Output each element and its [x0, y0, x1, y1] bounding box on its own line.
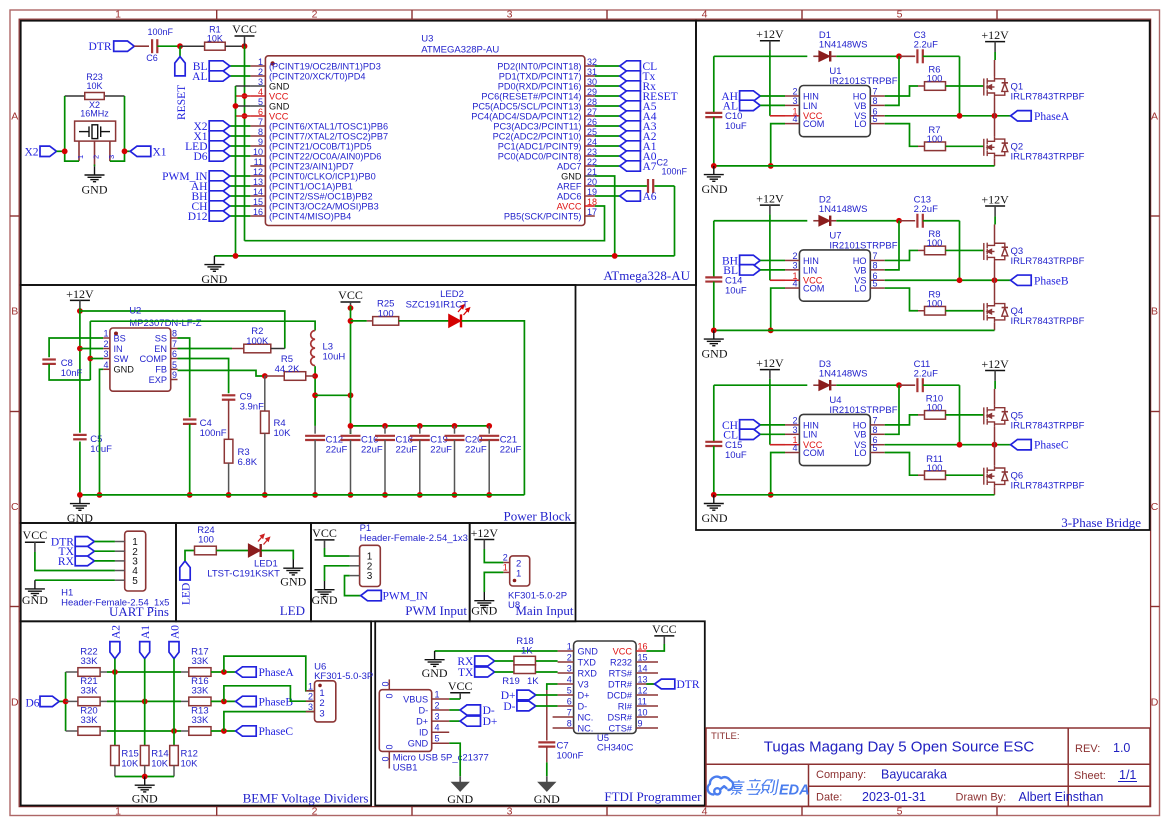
wire U4 LO to R11	[885, 453, 918, 476]
svg-text:+12V: +12V	[981, 357, 1009, 371]
wire U2 pin6 COMP to C9	[178, 359, 229, 394]
svg-text:GND: GND	[22, 593, 48, 607]
svg-text:GND: GND	[114, 365, 135, 375]
svg-text:+12V: +12V	[66, 287, 94, 301]
junction GND pin5 rail	[233, 103, 239, 109]
svg-text:2: 2	[308, 692, 313, 702]
svg-text:Albert Einsthan: Albert Einsthan	[1019, 790, 1104, 804]
junction X2	[62, 148, 68, 154]
U3 pin 13 ((PCINT1/OC1A)PB1)	[250, 185, 265, 187]
terminal U8 KF301-5.0-2P body	[510, 556, 530, 586]
svg-text:100: 100	[198, 535, 214, 546]
U5 pin 15 (R232)	[636, 661, 658, 663]
resistor R25 100 (LED2)	[373, 317, 399, 326]
transistor Q2 IRLR7843TRPBF (low side)	[984, 136, 1008, 158]
U3 pin 24 (PC1(ADC1/PCINT9))	[585, 145, 595, 147]
svg-text:6: 6	[567, 697, 572, 707]
capacitor C14 10uF (driver supply)	[713, 221, 715, 278]
svg-text:2: 2	[503, 553, 508, 563]
capacitor C3 2.2uF	[916, 49, 918, 63]
resistor R23 10K (crystal parallel)	[65, 95, 85, 97]
svg-text:PWM Input: PWM Input	[405, 603, 467, 618]
svg-text:ID: ID	[419, 728, 429, 738]
wire U1 VB to boost node	[885, 56, 899, 105]
wire U4 COM pin to ground rail	[771, 453, 785, 495]
port D6 (U3 left, pin row y=156)	[230, 155, 251, 157]
U6 pin 3	[306, 711, 315, 713]
resistor R5 44.2K	[265, 375, 285, 377]
U2 pin 5 (FB)	[171, 368, 178, 370]
output capacitor bank top rail	[351, 425, 490, 427]
wire U7 LO to R9	[885, 288, 918, 311]
U3 pin 23 (PC0(ADC0/PCINT8))	[585, 155, 595, 157]
svg-text:15: 15	[638, 653, 648, 663]
resistor R9 100 (low gate)	[925, 306, 946, 315]
U1 pin 5 (LO)	[870, 123, 884, 125]
crystal pin 2	[94, 141, 96, 164]
svg-text:R19: R19	[502, 676, 519, 687]
junction BEMF gnd	[142, 774, 148, 780]
U5 pin 11 (RI#)	[636, 705, 658, 707]
junction U2 GND	[97, 492, 103, 498]
svg-text:1N4148WS: 1N4148WS	[819, 40, 868, 51]
ground symbol earth (C7)	[546, 776, 548, 782]
capacitor C12 22uF	[314, 426, 316, 434]
port RESET (U3 right, pin row y=96)	[595, 95, 620, 97]
svg-text:VCC: VCC	[269, 111, 289, 121]
svg-text:100nF: 100nF	[200, 428, 227, 439]
svg-text:A7: A7	[643, 161, 657, 173]
svg-text:100nF: 100nF	[662, 167, 688, 177]
capacitor C10 10uF (driver supply)	[713, 56, 715, 113]
U3 pin 28 (PC5(ADC5/SCL/PCINT13))	[585, 105, 595, 107]
ground symbol GND (bridge block)	[704, 495, 724, 510]
capacitor C5 10uF	[73, 434, 87, 436]
svg-text:RTS#: RTS#	[609, 668, 633, 678]
svg-text:Header-Female-2.54_1x5: Header-Female-2.54_1x5	[61, 598, 169, 609]
ground symbol GND (PWM)	[315, 581, 335, 596]
svg-text:5: 5	[132, 576, 138, 587]
wire P1 pin3 to PWM_IN port	[345, 576, 361, 596]
svg-text:VB: VB	[854, 101, 866, 111]
junction phase	[221, 699, 227, 705]
svg-text:IRLR7843TRPBF: IRLR7843TRPBF	[1011, 152, 1085, 163]
junction SW pin3	[87, 356, 93, 362]
wire R20 to R13	[100, 730, 107, 732]
wire C2 to GND rail	[654, 185, 674, 187]
U2 pin 1 (BS)	[103, 337, 110, 339]
USB1 shield pin 0 (bottom)	[388, 751, 390, 768]
wire U4 VS to phase node	[885, 444, 1011, 446]
USB1 pin 2 (D-)	[432, 709, 450, 711]
svg-text:13: 13	[638, 675, 648, 685]
svg-text:ADC7: ADC7	[557, 161, 582, 171]
port BL (low-side input)	[740, 265, 761, 275]
port PWM_IN	[361, 590, 382, 600]
U3 pin 31 (PD1(TXD/PCINT17))	[585, 75, 595, 77]
resistor R16 33K	[189, 697, 211, 706]
U5 pin 13 (DTR#)	[636, 683, 658, 685]
IC U1 IR2101STRPBF body	[799, 86, 870, 137]
junction R3 GND	[226, 492, 232, 498]
svg-text:D: D	[11, 697, 19, 709]
svg-text:X2: X2	[24, 146, 38, 158]
svg-text:VB: VB	[854, 430, 866, 440]
ground symbol GND (CH340 pin1)	[425, 651, 445, 666]
U3 pin 8 ((PCINT7/XTAL2/TOSC2)PB7)	[250, 135, 265, 137]
U3 pin 15 ((PCINT3/OC2A/MOSI)PB3)	[250, 205, 265, 207]
capacitor C6 100nF	[151, 39, 153, 53]
U3 pin 17 (PB5(SCK/PCINT5))	[585, 215, 595, 217]
U3 pin 16 ((PCINT4/MISO)PB4)	[250, 215, 265, 217]
svg-text:Tugas Magang Day 5 Open Source: Tugas Magang Day 5 Open Source ESC	[764, 739, 1035, 756]
svg-text:VBUS: VBUS	[403, 694, 428, 704]
U3 pin 11 ((PCINT23/AIN1)PD7)	[250, 165, 265, 167]
U7 pin 6 (VS)	[870, 279, 884, 281]
resistor R4 10K	[264, 376, 266, 411]
ground symbol GND (U3 bottom)	[204, 256, 224, 271]
port A2 (vertical, BEMF)	[110, 642, 120, 659]
wire R16 to phase port	[211, 700, 236, 702]
port X2 (crystal left)	[40, 146, 57, 156]
header P1 body	[360, 545, 381, 586]
U2 pin 3 (SW)	[103, 358, 110, 360]
ground symbol GND (main input)	[474, 592, 494, 607]
svg-text:PB5(SCK/PCINT5): PB5(SCK/PCINT5)	[504, 211, 582, 221]
U3 pin 20 (AREF)	[585, 185, 595, 187]
svg-text:22uF: 22uF	[465, 445, 487, 456]
wire Q2 source to ground rail	[994, 158, 996, 166]
ground symbol GND (BEMF)	[135, 777, 155, 792]
junction VCC stem	[348, 305, 354, 311]
port PhaseB (phase output)	[1011, 275, 1032, 285]
svg-text:1/1: 1/1	[1119, 768, 1136, 782]
U5 pin 8 (NC.)	[553, 727, 574, 729]
svg-text:10K: 10K	[181, 759, 199, 770]
capacitor C4 100nF	[183, 418, 197, 420]
svg-text:6: 6	[258, 107, 263, 117]
svg-text:DTR: DTR	[89, 41, 112, 53]
svg-text:CH340C: CH340C	[597, 743, 634, 754]
wire U2 pin5 FB to R5/R4	[178, 370, 265, 376]
U3 pin 6 (VCC)	[250, 115, 265, 117]
svg-text:PC3(ADC3/PCINT11): PC3(ADC3/PCINT11)	[493, 121, 581, 131]
wire U2 pin4 GND down	[100, 369, 104, 495]
svg-text:RXD: RXD	[578, 668, 598, 678]
wire SW net vertical	[89, 321, 91, 380]
wire PhaseC to U6 pin3	[224, 712, 315, 731]
capacitor C2 100nF (AREF)	[647, 179, 649, 193]
wire U5 pin1 GND left	[435, 650, 558, 652]
junction VB/boost	[896, 382, 902, 388]
svg-text:3-Phase Bridge: 3-Phase Bridge	[1061, 515, 1141, 530]
capacitor C16 22uF	[350, 426, 352, 434]
port A7 (U3 right, pin row y=166)	[595, 165, 620, 167]
junction VS/C boost	[957, 277, 963, 283]
junction phase	[221, 728, 227, 734]
svg-text:C: C	[1151, 501, 1159, 513]
svg-text:10K: 10K	[86, 81, 102, 91]
svg-text:Drawn By:: Drawn By:	[956, 792, 1007, 804]
svg-text:5: 5	[897, 9, 903, 21]
svg-text:FB: FB	[155, 365, 167, 375]
U2 pin 7 (EN)	[171, 348, 178, 350]
svg-text:9: 9	[258, 137, 263, 147]
power symbol VCC (USB)	[450, 692, 470, 694]
wire VCC to R25	[351, 320, 367, 322]
junction VCC/R25	[348, 318, 354, 324]
U2 pin 2 (IN)	[103, 348, 110, 350]
ground symbol GND (crystal)	[85, 166, 105, 181]
port X1 (U3 left, pin row y=136)	[230, 135, 251, 137]
port RX (FTDI)	[475, 656, 495, 666]
svg-text:1: 1	[76, 155, 85, 159]
resistor R3 6.8K	[224, 439, 233, 463]
wire LED2 cathode to GND rail	[462, 321, 525, 495]
port CL (U3 right, pin row y=66)	[595, 65, 620, 67]
svg-text:VCC: VCC	[232, 22, 257, 36]
IC U4 IR2101STRPBF body	[799, 414, 870, 465]
svg-text:LIN: LIN	[803, 265, 817, 275]
svg-text:NC.: NC.	[578, 723, 594, 733]
U3 pin 27 (PC4(ADC4/SDA/PCINT12))	[585, 115, 595, 117]
svg-text:5: 5	[873, 443, 878, 453]
svg-text:VCC: VCC	[338, 288, 363, 302]
frame row ticks left/right	[10, 215, 19, 217]
port TX (FTDI)	[475, 667, 495, 677]
svg-text:4: 4	[702, 806, 708, 818]
port AL (low-side input)	[740, 100, 761, 110]
port TX (UART)	[75, 546, 94, 556]
svg-text:100: 100	[927, 298, 943, 309]
svg-text:USB1: USB1	[393, 762, 418, 773]
transistor Q1 IRLR7843TRPBF (high side)	[984, 76, 1008, 98]
USB1 pin 1 (VBUS)	[432, 698, 450, 700]
wire PhaseB to U6 pin2	[224, 686, 315, 702]
svg-text:+12V: +12V	[981, 193, 1009, 207]
svg-text:Date:: Date:	[816, 792, 842, 804]
wire VCC to H1 pin4	[35, 552, 115, 571]
svg-text:U3: U3	[421, 34, 433, 45]
U3 pin 22 (ADC7)	[585, 165, 595, 167]
port BH (U3 left, pin row y=196)	[230, 195, 251, 197]
junction VB/boost	[896, 218, 902, 224]
svg-text:4: 4	[702, 9, 708, 21]
junction VS/C boost	[957, 113, 963, 119]
svg-text:1K: 1K	[521, 646, 533, 657]
U7 pin 2 (HIN)	[785, 259, 799, 261]
svg-text:2: 2	[312, 9, 318, 21]
U3 pin 9 ((PCINT21/OC0B/T1)PD5)	[250, 145, 265, 147]
U2 pin 6 (COMP)	[171, 358, 178, 360]
wire BEMF ground rail	[115, 776, 174, 778]
svg-text:COM: COM	[803, 448, 824, 458]
svg-text:10uH: 10uH	[323, 352, 346, 363]
svg-text:(PCINT21/OC0B/T1)PD5: (PCINT21/OC0B/T1)PD5	[269, 141, 372, 151]
U1 pin 4 (COM)	[785, 123, 799, 125]
U3 pin 29 (PC6(RESET#/PCINT14))	[585, 95, 595, 97]
capacitor C21 22uF	[486, 423, 492, 429]
svg-text:12: 12	[638, 686, 648, 696]
port PWM_IN (U3 left, pin row y=176)	[230, 175, 251, 177]
capacitor C9 3.9nF	[222, 394, 236, 396]
svg-text:AVCC: AVCC	[557, 201, 582, 211]
U4 pin 1 (VCC)	[785, 444, 799, 446]
capacitor C13 2.2uF	[916, 214, 918, 228]
power symbol +12V (half-bridge Q1)	[985, 41, 1005, 43]
gate driver block U7: +12V left power	[760, 204, 780, 206]
svg-text:KF301-5.0-3P: KF301-5.0-3P	[314, 671, 373, 682]
svg-text:10uF: 10uF	[90, 444, 112, 455]
ground symbol GND (bridge block)	[704, 330, 724, 345]
svg-text:PhaseA: PhaseA	[1034, 111, 1070, 123]
U7 pin 3 (LIN)	[785, 269, 799, 271]
transistor Q6 IRLR7843TRPBF (low side)	[984, 465, 1008, 487]
svg-text:GND: GND	[269, 101, 290, 111]
section box: FTDI Programmer	[375, 621, 705, 805]
wire U2 pin8 SS to C4	[178, 338, 190, 417]
U3 pin 2 ((PCINT20/XCK/T0)PD4)	[250, 75, 265, 77]
junction node VCC/R1	[242, 43, 248, 49]
svg-text:Main Input: Main Input	[515, 603, 574, 618]
junction node DTR/RESET	[177, 43, 183, 49]
svg-text:1N4148WS: 1N4148WS	[819, 204, 868, 215]
U3 pin 10 ((PCINT22/OC0A/AIN0)PD6)	[250, 155, 265, 157]
H1 pin 1	[115, 541, 125, 543]
port RX (UART)	[75, 556, 94, 566]
H1 pin 3	[115, 560, 125, 562]
wire top rail to diode D1	[714, 55, 808, 57]
U2 pin 4 (GND)	[103, 368, 110, 370]
svg-text:ADC6: ADC6	[557, 191, 582, 201]
svg-text:4: 4	[792, 114, 797, 124]
USB connector USB1 body	[379, 690, 431, 752]
crystal pin 1	[78, 141, 80, 161]
svg-text:2: 2	[258, 67, 263, 77]
wire P1 pin2 to GND	[325, 566, 350, 581]
svg-text:AL: AL	[192, 71, 207, 83]
svg-text:+12V: +12V	[756, 27, 784, 41]
wire LED1 to GND	[261, 551, 293, 560]
junction C10 ground	[711, 492, 717, 498]
wire R3 to GND rail	[228, 463, 230, 495]
svg-text:8: 8	[258, 127, 263, 137]
svg-text:GND: GND	[702, 511, 728, 525]
svg-text:BS: BS	[114, 333, 126, 343]
svg-text:B: B	[1151, 306, 1158, 318]
wire A2 down	[114, 659, 116, 747]
svg-text:3: 3	[308, 702, 313, 712]
port D6 (BEMF)	[40, 696, 59, 706]
wire LED port to R24	[185, 551, 195, 562]
ground symbol GND (UART)	[25, 580, 45, 595]
svg-text:TX: TX	[458, 667, 474, 679]
svg-text:(PCINT4/MISO)PB4: (PCINT4/MISO)PB4	[269, 211, 351, 221]
U3 pin 30 (PD0(RXD/PCINT16))	[585, 85, 595, 87]
svg-text:LO: LO	[854, 119, 866, 129]
svg-text:A0: A0	[170, 625, 182, 639]
svg-text:GND: GND	[408, 739, 429, 749]
svg-text:VCC: VCC	[652, 622, 677, 636]
svg-text:2: 2	[435, 701, 440, 711]
section box: LED	[176, 523, 311, 621]
gate driver block U1: +12V left power	[760, 40, 780, 42]
U3 pin 25 (PC2(ADC2/PCINT10))	[585, 135, 595, 137]
svg-text:4: 4	[792, 443, 797, 453]
USB1 shield pin 0 (top)	[388, 679, 390, 690]
port BL (U3 left, pin row y=66)	[230, 65, 251, 67]
junction FB/R4/R5	[262, 373, 268, 379]
U6 pin 2	[306, 700, 315, 702]
wire U1 VCC pin to +12V	[770, 115, 785, 117]
wire Q5 source to phase	[994, 427, 996, 445]
wire A1 down	[144, 659, 146, 747]
svg-text:A2: A2	[110, 625, 122, 639]
svg-text:33K: 33K	[81, 685, 99, 696]
resistor R12 10K	[170, 746, 179, 766]
junction L3/R5	[312, 373, 318, 379]
svg-text:GND: GND	[269, 81, 290, 91]
svg-text:PD0(RXD/PCINT16): PD0(RXD/PCINT16)	[498, 81, 582, 91]
port PhaseA (phase output)	[1011, 111, 1032, 121]
port A5 (U3 right, pin row y=106)	[595, 105, 620, 107]
U3 pin 26 (PC3(ADC3/PCINT11))	[585, 125, 595, 127]
U4 pin 3 (LIN)	[785, 433, 799, 435]
svg-text:D-: D-	[503, 701, 515, 713]
U5 pin 10 (DSR#)	[636, 716, 658, 718]
port AH (high-side input)	[740, 91, 761, 101]
svg-text:5: 5	[873, 279, 878, 289]
port X1 (crystal right)	[125, 150, 131, 152]
svg-text:1: 1	[503, 562, 508, 572]
svg-text:3: 3	[507, 806, 513, 818]
port A1 (U3 right, pin row y=146)	[595, 145, 620, 147]
IC U7 IR2101STRPBF body	[799, 250, 870, 301]
svg-text:LED2: LED2	[440, 289, 464, 300]
U1 pin 8 (VB)	[870, 104, 884, 106]
U1 pin 3 (LIN)	[785, 104, 799, 106]
svg-text:TXD: TXD	[578, 657, 597, 667]
svg-text:PC6(RESET#/PCINT14): PC6(RESET#/PCINT14)	[481, 91, 581, 101]
U5 pin 9 (CTS#)	[636, 727, 658, 729]
wire GND pin3	[236, 85, 251, 87]
port PhaseA (BEMF)	[236, 667, 257, 677]
svg-text:11: 11	[638, 697, 647, 707]
svg-text:(PCINT20/XCK/T0)PD4: (PCINT20/XCK/T0)PD4	[269, 71, 366, 81]
svg-text:4: 4	[792, 279, 797, 289]
U2 pin 9 (EXP)	[171, 379, 178, 381]
U8 pin-1 marker dot	[513, 579, 517, 583]
wire top rail to diode D3	[714, 384, 808, 386]
junction output node	[312, 392, 318, 398]
U1 pin 6 (VS)	[870, 115, 884, 117]
svg-text:D12: D12	[188, 211, 208, 223]
svg-text:EDA: EDA	[779, 783, 810, 799]
wire U2 pin1 BS to C8	[49, 338, 103, 357]
svg-text:COM: COM	[803, 119, 824, 129]
svg-text:0: 0	[384, 744, 394, 749]
svg-text:SZC191IR1CT: SZC191IR1CT	[406, 300, 468, 311]
svg-text:R232: R232	[610, 657, 632, 667]
wire U7 HO to R8	[885, 250, 918, 260]
wire U7 VB to boost node	[885, 221, 899, 270]
svg-text:BL: BL	[723, 265, 738, 277]
svg-text:10K: 10K	[151, 759, 169, 770]
wire U1 LO to R7	[885, 124, 918, 147]
svg-text:3: 3	[435, 712, 440, 722]
svg-text:IRLR7843TRPBF: IRLR7843TRPBF	[1011, 420, 1085, 431]
port DTR (UART)	[75, 537, 94, 547]
